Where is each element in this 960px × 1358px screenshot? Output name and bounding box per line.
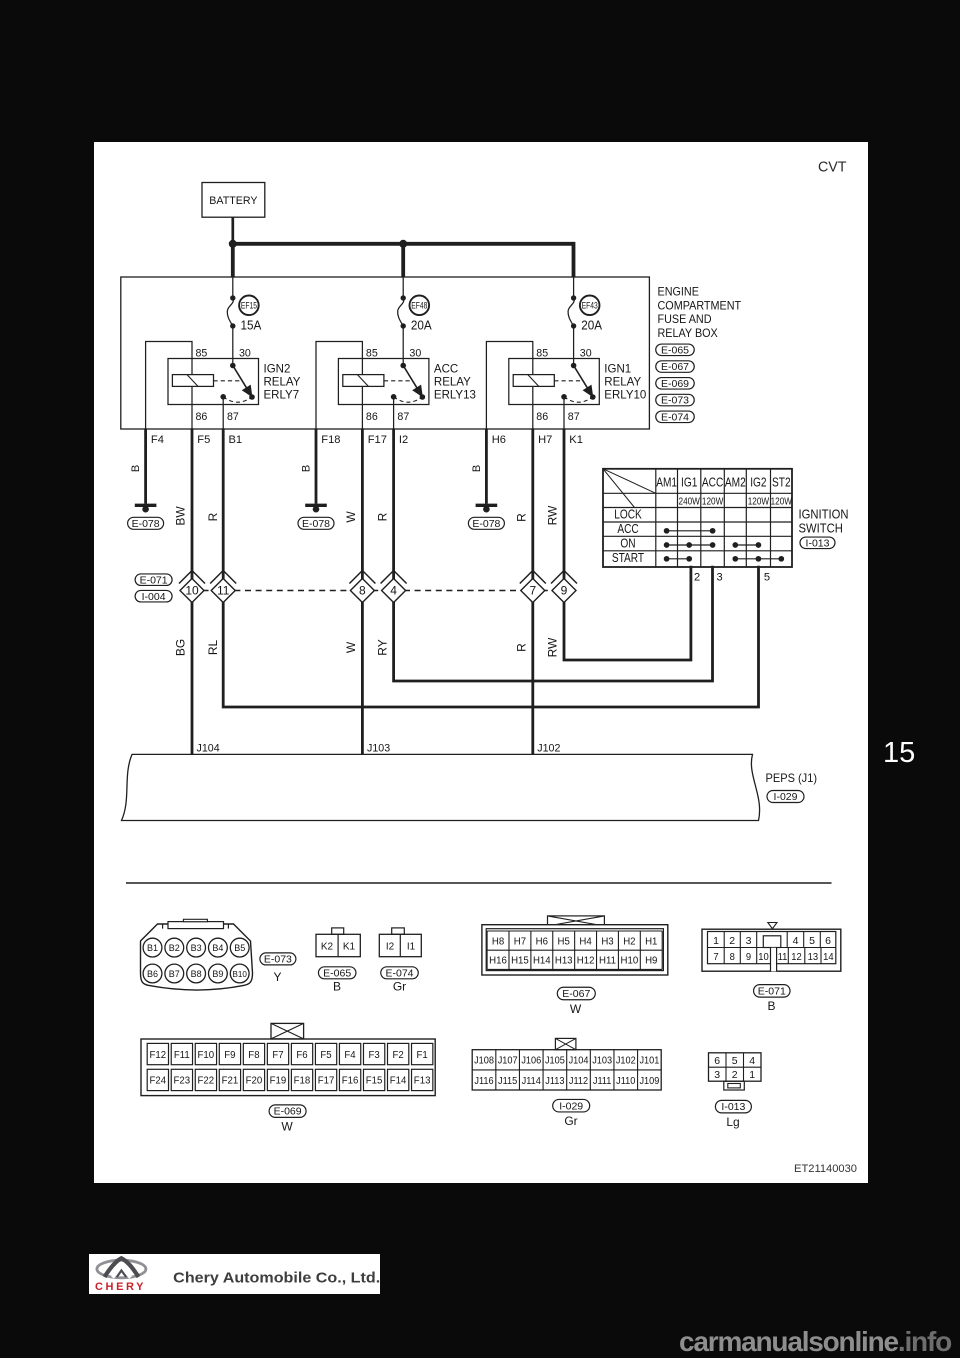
svg-text:AM1: AM1 [656,475,677,489]
svg-text:ACC: ACC [702,475,723,489]
svg-text:B5: B5 [234,943,245,953]
svg-text:B10: B10 [233,969,248,979]
svg-text:J102: J102 [537,742,560,754]
svg-text:J102: J102 [616,1055,636,1067]
svg-text:ET21140030: ET21140030 [794,1163,857,1175]
svg-text:Chery Automobile Co., Ltd.: Chery Automobile Co., Ltd. [173,1270,380,1287]
svg-text:LOCK: LOCK [614,507,642,521]
svg-text:RELAY BOX: RELAY BOX [658,328,719,340]
svg-text:Gr: Gr [564,1114,577,1128]
svg-text:IGN1: IGN1 [604,362,631,375]
svg-text:W: W [344,641,358,653]
svg-text:9: 9 [746,951,752,963]
svg-text:87: 87 [568,411,580,423]
svg-text:F5: F5 [320,1049,332,1060]
svg-text:I-013: I-013 [806,537,830,549]
svg-text:J107: J107 [498,1055,518,1067]
svg-text:F3: F3 [368,1049,380,1060]
svg-text:1: 1 [749,1069,755,1081]
svg-text:ST2: ST2 [772,475,791,489]
svg-text:120W: 120W [702,494,723,506]
svg-text:I-013: I-013 [721,1101,745,1113]
svg-text:4: 4 [390,584,397,598]
svg-text:RW: RW [546,505,560,525]
svg-text:F24: F24 [149,1075,166,1086]
svg-text:E-069: E-069 [661,378,689,390]
svg-text:F20: F20 [246,1075,263,1086]
svg-text:86: 86 [196,411,208,423]
svg-text:4: 4 [749,1055,755,1067]
svg-text:COMPARTMENT: COMPARTMENT [658,300,742,312]
svg-text:E-071: E-071 [758,985,786,997]
svg-text:B4: B4 [212,943,223,953]
svg-text:F17: F17 [318,1075,335,1086]
svg-text:6: 6 [825,935,831,947]
svg-text:H10: H10 [621,955,639,966]
svg-text:E-073: E-073 [264,953,292,965]
svg-text:F14: F14 [390,1075,407,1086]
svg-text:J106: J106 [521,1055,541,1067]
svg-text:CHERY: CHERY [95,1281,146,1293]
svg-text:F22: F22 [198,1075,215,1086]
svg-text:3: 3 [714,1069,720,1081]
svg-text:E-065: E-065 [323,967,351,979]
svg-text:H15: H15 [511,955,529,966]
svg-text:F21: F21 [222,1075,239,1086]
svg-text:I-029: I-029 [774,791,798,803]
svg-text:W: W [281,1120,293,1134]
svg-text:F18: F18 [294,1075,311,1086]
svg-text:R: R [514,643,528,652]
svg-text:J111: J111 [593,1075,612,1087]
svg-text:ERLY13: ERLY13 [434,388,476,401]
svg-text:B2: B2 [169,943,180,953]
svg-text:B: B [300,465,312,472]
svg-text:Y: Y [273,970,281,984]
svg-text:15A: 15A [241,318,263,333]
svg-text:J104: J104 [569,1055,589,1067]
svg-text:E-071: E-071 [140,574,168,586]
svg-text:240W: 240W [679,494,700,506]
svg-text:W: W [570,1002,582,1016]
svg-text:I-004: I-004 [142,591,166,603]
svg-text:B: B [333,980,341,994]
svg-text:F4: F4 [344,1049,356,1060]
svg-text:AM2: AM2 [725,475,746,489]
svg-text:30: 30 [239,347,251,359]
svg-text:J101: J101 [639,1055,659,1067]
svg-text:R: R [514,513,528,522]
svg-text:87: 87 [227,411,239,423]
svg-text:30: 30 [580,347,592,359]
svg-text:9: 9 [561,584,568,598]
svg-text:B: B [130,465,142,472]
svg-text:J109: J109 [639,1075,659,1087]
svg-text:PEPS (J1): PEPS (J1) [766,773,818,785]
svg-text:I2: I2 [399,434,408,446]
svg-text:Gr: Gr [393,980,406,994]
svg-text:ERLY7: ERLY7 [264,388,300,401]
svg-text:B7: B7 [169,969,180,979]
svg-text:7: 7 [713,951,719,963]
svg-text:K2: K2 [321,941,333,952]
svg-text:H12: H12 [577,955,595,966]
svg-text:ACC: ACC [617,522,638,536]
svg-text:H6: H6 [492,434,506,446]
svg-text:H3: H3 [601,936,614,947]
svg-text:H7: H7 [538,434,552,446]
svg-text:RELAY: RELAY [434,375,471,388]
svg-text:E-074: E-074 [661,411,689,423]
svg-text:E-073: E-073 [661,395,689,407]
svg-text:120W: 120W [748,494,769,506]
svg-text:F15: F15 [366,1075,383,1086]
svg-text:10: 10 [185,584,199,598]
svg-text:120W: 120W [771,494,792,506]
svg-text:J103: J103 [592,1055,612,1067]
svg-text:F9: F9 [224,1049,236,1060]
svg-text:BW: BW [174,506,188,526]
svg-text:IGN2: IGN2 [264,362,291,375]
svg-text:F23: F23 [174,1075,191,1086]
svg-text:IGNITION: IGNITION [799,507,849,522]
svg-text:8: 8 [730,951,736,963]
svg-text:H9: H9 [645,955,658,966]
svg-text:EF15: EF15 [241,301,258,311]
svg-text:ON: ON [620,536,635,550]
svg-text:H6: H6 [536,936,549,947]
svg-text:F17: F17 [368,434,387,446]
svg-text:ERLY10: ERLY10 [604,388,646,401]
svg-text:14: 14 [823,951,834,963]
svg-text:B: B [471,465,483,472]
svg-text:J103: J103 [367,742,390,754]
svg-text:E-065: E-065 [661,344,689,356]
svg-text:J112: J112 [569,1075,588,1087]
svg-text:6: 6 [714,1055,720,1067]
svg-text:RY: RY [376,639,390,655]
svg-text:10: 10 [758,951,769,963]
svg-text:K1: K1 [569,434,583,446]
svg-text:RELAY: RELAY [264,375,301,388]
svg-text:FUSE AND: FUSE AND [658,314,712,326]
svg-text:B6: B6 [147,969,158,979]
svg-text:30: 30 [409,347,421,359]
svg-text:RW: RW [546,637,560,657]
svg-text:J115: J115 [498,1075,517,1087]
svg-text:F10: F10 [198,1049,215,1060]
svg-text:SWITCH: SWITCH [799,521,843,536]
svg-text:87: 87 [397,411,409,423]
svg-text:IG2: IG2 [750,475,766,489]
svg-text:11: 11 [217,584,230,598]
svg-text:RELAY: RELAY [604,375,641,388]
svg-text:2: 2 [732,1069,738,1081]
svg-text:H2: H2 [623,936,636,947]
svg-text:86: 86 [536,411,548,423]
svg-text:H7: H7 [514,936,527,947]
svg-text:F5: F5 [197,434,210,446]
svg-text:J105: J105 [545,1055,565,1067]
svg-text:2: 2 [729,935,735,947]
svg-text:F11: F11 [174,1049,190,1060]
svg-text:F4: F4 [151,434,164,446]
svg-text:5: 5 [809,935,815,947]
svg-text:B: B [767,999,775,1013]
svg-text:E-078: E-078 [132,518,160,530]
svg-text:20A: 20A [581,318,603,333]
svg-text:F2: F2 [392,1049,404,1060]
svg-text:H13: H13 [555,955,573,966]
svg-text:B1: B1 [229,434,243,446]
svg-text:I1: I1 [407,941,416,952]
svg-text:H14: H14 [533,955,551,966]
svg-text:7: 7 [529,584,536,598]
svg-text:H4: H4 [579,936,592,947]
svg-text:H11: H11 [599,955,616,966]
svg-text:J110: J110 [616,1075,636,1087]
svg-text:H16: H16 [489,955,507,966]
svg-text:F6: F6 [296,1049,308,1060]
svg-text:5: 5 [732,1055,738,1067]
svg-text:CVT: CVT [818,159,847,175]
svg-text:W: W [344,511,358,523]
svg-text:11: 11 [778,951,788,963]
svg-text:EF48: EF48 [411,301,428,311]
svg-text:IG1: IG1 [681,475,697,489]
svg-text:I-029: I-029 [559,1100,583,1112]
svg-text:ACC: ACC [434,362,459,375]
svg-text:B1: B1 [147,943,158,953]
svg-text:EF43: EF43 [582,301,599,311]
svg-text:E-067: E-067 [562,988,590,1000]
svg-text:BG: BG [174,639,188,656]
svg-text:BATTERY: BATTERY [209,195,257,207]
svg-text:86: 86 [366,411,378,423]
svg-text:85: 85 [536,347,548,359]
svg-text:F16: F16 [342,1075,359,1086]
svg-text:F1: F1 [416,1049,428,1060]
svg-text:8: 8 [359,584,366,598]
svg-text:1: 1 [713,935,719,947]
svg-text:13: 13 [808,951,819,963]
svg-text:K1: K1 [343,941,355,952]
svg-text:H8: H8 [492,936,505,947]
svg-text:F7: F7 [272,1049,284,1060]
svg-text:Lg: Lg [726,1115,739,1129]
svg-text:E-078: E-078 [302,518,330,530]
svg-text:2: 2 [694,571,700,583]
svg-text:E-067: E-067 [661,361,689,373]
svg-text:J113: J113 [545,1075,564,1087]
svg-text:20A: 20A [411,318,433,333]
svg-text:J116: J116 [474,1075,493,1087]
svg-text:E-078: E-078 [472,518,500,530]
svg-text:RL: RL [206,640,220,656]
svg-text:F19: F19 [270,1075,287,1086]
svg-text:R: R [206,512,220,521]
svg-text:5: 5 [764,571,770,583]
svg-text:E-069: E-069 [274,1106,302,1118]
svg-text:F18: F18 [321,434,340,446]
svg-text:F8: F8 [248,1049,260,1060]
svg-text:H5: H5 [558,936,571,947]
svg-text:12: 12 [791,951,802,963]
svg-text:85: 85 [366,347,378,359]
svg-text:ENGINE: ENGINE [658,286,699,298]
svg-text:4: 4 [793,935,799,947]
svg-text:B9: B9 [212,969,223,979]
svg-text:F12: F12 [149,1049,166,1060]
svg-text:J114: J114 [522,1075,542,1087]
svg-text:F13: F13 [414,1075,431,1086]
svg-text:R: R [376,512,390,521]
svg-text:START: START [612,551,644,565]
svg-text:B3: B3 [191,943,202,953]
svg-text:J108: J108 [474,1055,494,1067]
svg-text:E-074: E-074 [385,967,413,979]
svg-text:85: 85 [196,347,208,359]
svg-text:J104: J104 [197,742,220,754]
svg-text:B8: B8 [191,969,202,979]
svg-text:3: 3 [717,571,723,583]
svg-text:I2: I2 [386,941,395,952]
svg-text:3: 3 [746,935,752,947]
svg-text:H1: H1 [645,936,658,947]
